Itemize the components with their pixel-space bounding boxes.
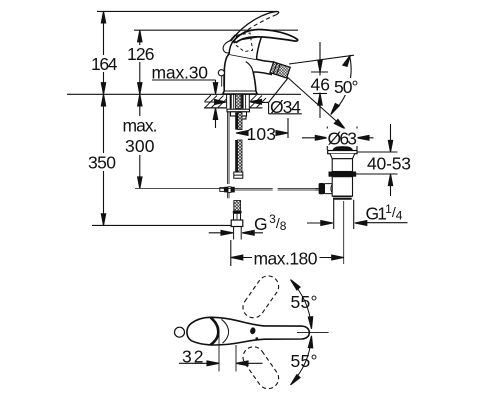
- lever handle lowered (solid): [233, 30, 298, 43]
- 32 dimension left arrow: [179, 361, 219, 366]
- svg-text:103: 103: [247, 124, 277, 144]
- arrow 350 top: [101, 94, 105, 106]
- 40-53 lower arrow line: [388, 174, 392, 196]
- drain tailpipe: [334, 200, 354, 229]
- dimension line vertical 164-350: [103, 11, 105, 225]
- G3/8 thread tube: [234, 227, 242, 240]
- drain lower body: [332, 177, 352, 197]
- svg-text:46: 46: [311, 75, 331, 95]
- drain centerline: [343, 201, 345, 264]
- dimension 126 top reference line: [134, 29, 298, 31]
- top view horizontal centerline: [297, 331, 329, 333]
- G 1-1/4 leader left arrow: [307, 221, 333, 226]
- label 50 degrees: [333, 77, 360, 97]
- dimension 103 right arrow: [276, 131, 288, 136]
- Ø63 extension line right: [356, 127, 358, 151]
- arrow 350 bottom: [101, 214, 105, 226]
- 40-53 upper arrow line: [388, 124, 392, 152]
- 32 dimension right arrow: [236, 361, 263, 366]
- 50 degree arc: [332, 56, 352, 113]
- top view dome crescent: [211, 317, 219, 344]
- svg-text:Ø63: Ø63: [328, 129, 358, 149]
- deck underside line left: [204, 107, 226, 109]
- svg-text:55°: 55°: [291, 351, 318, 371]
- G 3/8 right arrow: [242, 230, 263, 235]
- pop-up rod vertical: [227, 112, 229, 199]
- arrow 164 top: [101, 11, 105, 23]
- label 164: [90, 54, 119, 74]
- cartridge dashed outline: [234, 33, 253, 52]
- drain upper body: [332, 159, 352, 172]
- svg-text:55°: 55°: [291, 292, 318, 312]
- Ø34 arrow to shank left edge: [205, 100, 227, 105]
- label max. 300: [121, 116, 159, 157]
- lever raised bottom edge (dashed): [232, 15, 276, 42]
- Ø34 leader from aerator: [269, 78, 288, 102]
- dimension line vertical 126 / max300: [139, 30, 141, 188]
- spout axis reference diagonal: [289, 55, 354, 64]
- svg-text:max.30: max.30: [152, 63, 209, 83]
- svg-text:G11/4: G11/4: [366, 202, 403, 224]
- arc arrowhead top: [343, 55, 351, 66]
- drain flange: [328, 151, 357, 154]
- drain gasket: [329, 172, 357, 177]
- 350 bottom reference line: [92, 224, 232, 226]
- drain rod knob: [319, 183, 325, 194]
- arc arrowhead bottom: [331, 104, 340, 115]
- pop-up rod cross fitting: [220, 187, 235, 193]
- dimension 46 tick bottom: [313, 93, 327, 95]
- cartridge column under lever: [229, 36, 262, 59]
- dimension Ø63 right arrow: [357, 135, 374, 140]
- pop-up knob circle: [218, 70, 224, 76]
- 55 arc lower: [292, 339, 311, 383]
- Ø63 extension line left: [326, 127, 328, 151]
- arrow 126 bottom: [138, 83, 142, 95]
- horizontal pop-up rod to drain: [135, 188, 319, 190]
- svg-text:50°: 50°: [334, 77, 359, 97]
- Ø34 label box: [269, 102, 302, 113]
- drain taper: [330, 154, 355, 159]
- mounting nut: [231, 112, 247, 116]
- dimension 46 tick top: [311, 71, 328, 73]
- svg-text:G3/8: G3/8: [254, 212, 287, 234]
- dimension 103 left arrow: [236, 131, 248, 136]
- max180 right arrow: [320, 255, 344, 260]
- drain thread bands: [333, 196, 352, 198]
- top view cap joint arc: [222, 319, 229, 343]
- aerator knurled: [270, 62, 290, 78]
- top view pop-up knob circle: [175, 327, 185, 337]
- lever raised top edge (solid): [231, 12, 279, 41]
- svg-text:Ø34: Ø34: [270, 97, 301, 117]
- svg-text:max.180: max.180: [254, 249, 318, 269]
- svg-text:40-53: 40-53: [367, 154, 411, 174]
- G 3/8 left arrow: [209, 230, 233, 235]
- dimension 164 top reference line: [97, 10, 277, 12]
- 32 extension line left: [218, 334, 220, 372]
- hose lower hatch to G3/8: [233, 201, 242, 221]
- spout fillet arc: [246, 62, 253, 73]
- G 1-1/4 leader right arrow with underline: [355, 221, 408, 226]
- drain plug dome: [333, 147, 353, 151]
- svg-text:350: 350: [88, 153, 116, 173]
- 32 extension line right: [235, 345, 237, 372]
- max30 arrow up to deck underside: [213, 108, 217, 128]
- label 126: [126, 44, 156, 64]
- deck top surface line: [67, 93, 301, 95]
- G3/8 connection nut: [231, 220, 243, 227]
- water stream diagonal 50 degrees: [286, 76, 344, 128]
- deck hatching right: [250, 95, 266, 108]
- lever raised front cap: [223, 40, 231, 53]
- mounting washer below deck: [227, 109, 250, 112]
- svg-text:164: 164: [91, 54, 118, 74]
- arrow 46 top: [318, 60, 322, 72]
- arrow 164 bottom: [101, 83, 105, 95]
- top view solid handle body: [187, 317, 309, 345]
- stream arrowhead at drain: [334, 119, 345, 128]
- 55 arc upper: [292, 282, 311, 326]
- arrow max300 bottom: [138, 177, 142, 189]
- top view lever slot: [250, 327, 257, 335]
- 40-53 top reference line: [353, 151, 398, 153]
- max180 left extension line: [230, 240, 232, 266]
- hose coupling bands: [234, 172, 243, 178]
- faucet shank through deck: [227, 94, 250, 108]
- dimension 103 right extension tick: [287, 118, 289, 138]
- label 350: [87, 153, 117, 173]
- base flare line: [224, 90, 256, 92]
- 55 arc lower top arrowhead: [308, 336, 312, 348]
- pop-up knob stem: [222, 76, 224, 87]
- flexible hose lower segment: [235, 140, 242, 172]
- 55 arc upper top arrowhead: [291, 280, 301, 290]
- max30 leader underline: [152, 79, 216, 81]
- deck underside line right: [250, 107, 263, 109]
- arrow max300 top: [138, 94, 142, 106]
- svg-text:max.: max.: [123, 116, 158, 136]
- drain rod stub: [315, 188, 319, 190]
- 55 arc lower bottom arrowhead: [291, 375, 301, 385]
- drain ball joint arc: [331, 185, 332, 193]
- lever raised motion dashes: [230, 32, 239, 41]
- dimension Ø63 left arrow: [302, 135, 327, 140]
- arrow 46 bottom: [318, 94, 322, 106]
- max180 left arrow: [231, 255, 252, 260]
- deck hatching left: [205, 95, 227, 108]
- label 40-53: [366, 154, 412, 174]
- top view dashed handle rotated down 55: [239, 343, 283, 393]
- mounting nut step: [239, 116, 247, 119]
- flexible hose upper segment: [235, 112, 242, 129]
- svg-text:126: 126: [127, 44, 155, 64]
- top view small dot: [255, 337, 258, 340]
- drain side port: [325, 184, 333, 194]
- 55 arc upper bottom arrowhead: [308, 317, 312, 329]
- arrow 126 top: [138, 30, 142, 42]
- max30 arrow down to deck: [213, 80, 217, 94]
- label 46: [310, 75, 331, 95]
- top view dashed handle rotated up 55: [239, 272, 283, 322]
- label Ø63: [327, 129, 358, 149]
- 40-53 bottom reference line: [352, 173, 398, 175]
- svg-text:300: 300: [125, 136, 155, 156]
- faucet main body front view: [223, 54, 274, 94]
- dimension 46 vertical line: [319, 42, 321, 118]
- Ø34 arrow to shank right edge: [250, 99, 269, 104]
